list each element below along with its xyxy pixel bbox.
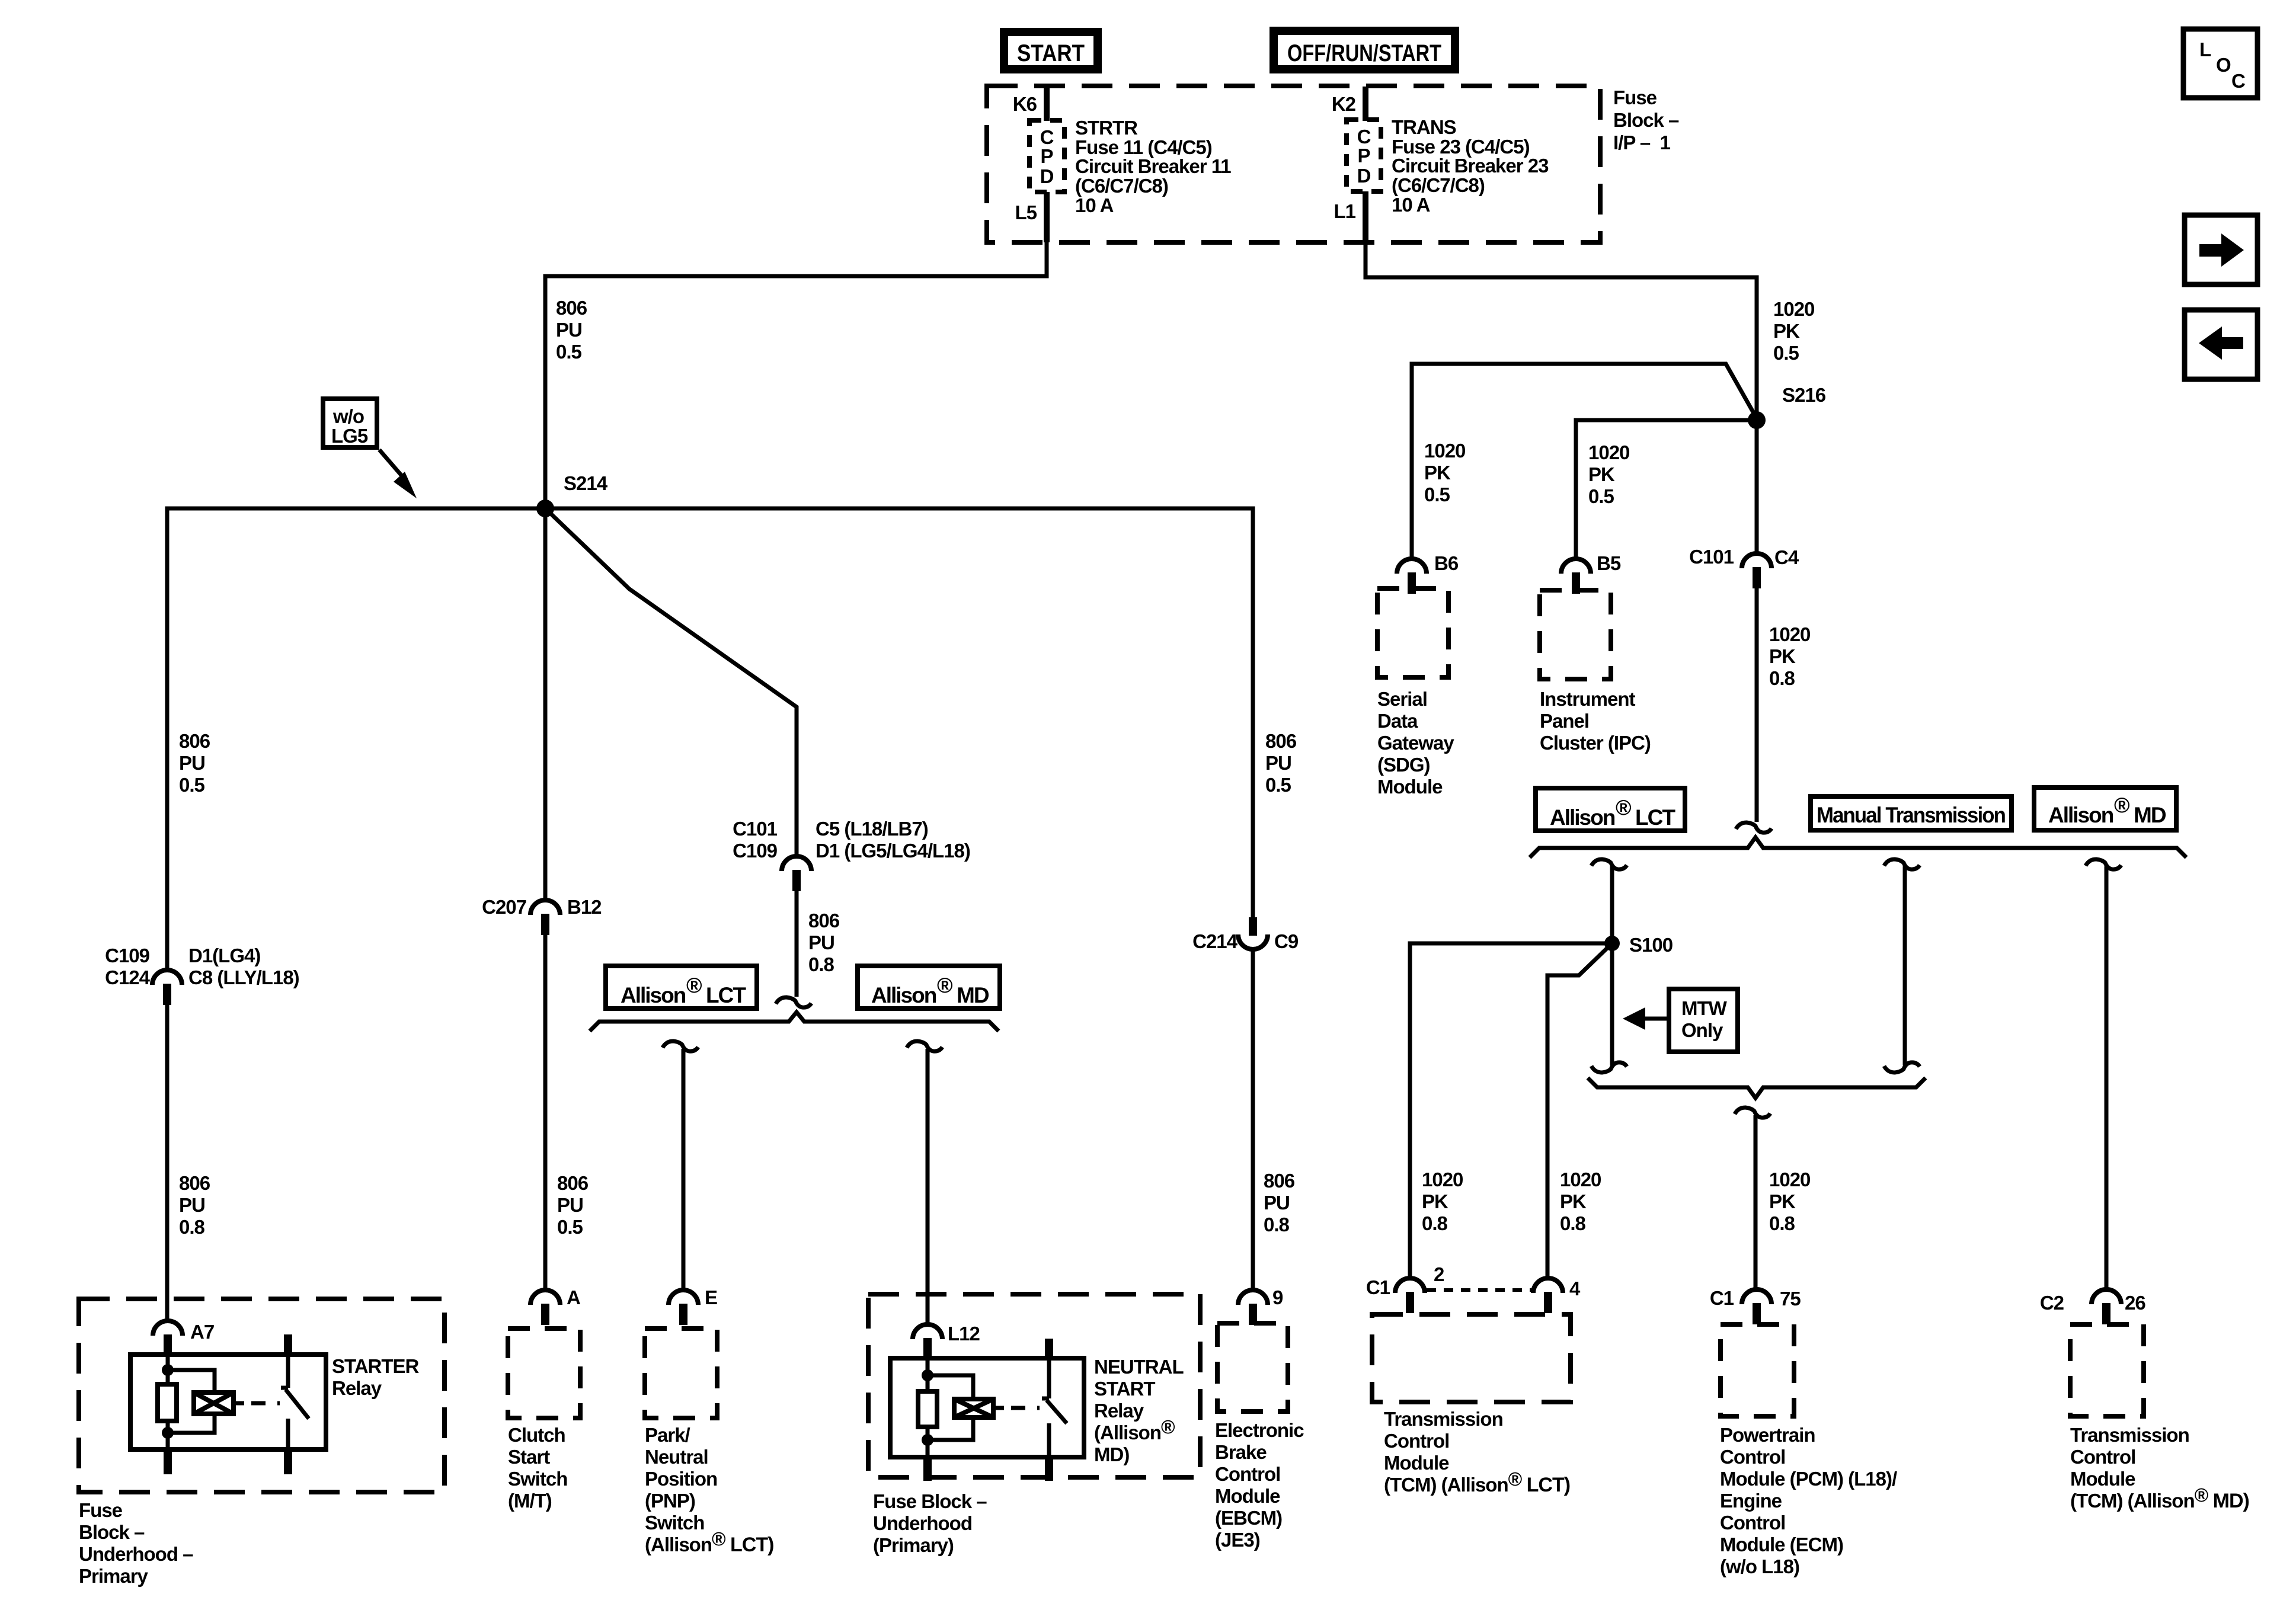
svg-text:L5: L5: [1015, 201, 1037, 223]
svg-text:0.8: 0.8: [1769, 667, 1795, 689]
svg-text:C: C: [2231, 70, 2245, 92]
svg-text:C109: C109: [105, 945, 150, 966]
label NEUTRAL START Relay: [1094, 1356, 1184, 1465]
pin L1: [1334, 191, 1368, 242]
label 1020 PK 0.8 (C4 column): [1769, 623, 1810, 689]
svg-text:K6: K6: [1013, 93, 1037, 115]
svg-text:Transmission: Transmission: [2070, 1424, 2189, 1446]
svg-text:806: 806: [1265, 730, 1297, 752]
svg-text:Allison: Allison: [1550, 805, 1615, 830]
box Allison LCT (left): [606, 966, 757, 1009]
connector B5: [1561, 552, 1621, 594]
wire S216 to B5: [1576, 420, 1757, 559]
svg-text:NEUTRAL: NEUTRAL: [1094, 1356, 1184, 1378]
label 806 PU 0.5 (left column): [179, 730, 210, 796]
svg-text:®: ®: [1616, 795, 1632, 820]
brace under Allison LCT/MD (left): [590, 1012, 999, 1031]
svg-text:C101: C101: [733, 818, 778, 840]
wire to neutral start relay L12: [926, 1049, 930, 1326]
wire S214 diagonal branch: [545, 508, 797, 856]
label Fuse Block - Underhood - Primary: [79, 1499, 193, 1587]
label 806 PU 0.8 (EBCM column): [1264, 1170, 1295, 1235]
svg-text:STRTR: STRTR: [1075, 117, 1138, 139]
svg-text:Module: Module: [1377, 776, 1443, 798]
svg-text:B12: B12: [567, 896, 602, 918]
svg-text:K2: K2: [1332, 93, 1356, 115]
svg-text:Instrument: Instrument: [1540, 688, 1636, 710]
svg-text:26: 26: [2125, 1292, 2145, 1314]
svg-text:Module: Module: [1384, 1452, 1449, 1474]
svg-text:C1: C1: [1366, 1276, 1390, 1298]
label Powertrain Control Module (PCM)/ECM: [1720, 1424, 1897, 1577]
label Park/Neutral Position Switch: [645, 1424, 773, 1556]
svg-text:PU: PU: [556, 319, 582, 341]
svg-text:1020: 1020: [1588, 441, 1629, 463]
TCM Allison LCT dashed box: [1372, 1314, 1571, 1402]
svg-text:0.8: 0.8: [808, 953, 834, 975]
PNP switch dashed box: [645, 1329, 717, 1418]
svg-text:(w/o L18): (w/o L18): [1720, 1555, 1799, 1577]
arrow box left: [2185, 310, 2257, 379]
wire S214 down branch: [543, 508, 548, 901]
svg-text:C8 (LLY/L18): C8 (LLY/L18): [188, 966, 299, 988]
curl top of PNP wire: [663, 1041, 698, 1051]
fuse block underhood primary dashed box: [79, 1299, 445, 1492]
svg-text:MTW: MTW: [1681, 997, 1728, 1019]
svg-text:Cluster (IPC): Cluster (IPC): [1540, 732, 1651, 754]
svg-text:Transmission: Transmission: [1384, 1408, 1503, 1430]
busbar Allison MD down to TCM C2: [2086, 859, 2121, 1291]
svg-text:START: START: [1017, 40, 1085, 66]
label 1020 PK 0.8 (PCM column): [1769, 1169, 1810, 1234]
svg-text:Engine: Engine: [1720, 1490, 1782, 1512]
svg-text:Control: Control: [1384, 1430, 1449, 1452]
wire to PCM C1 pin 75: [1754, 1115, 1758, 1291]
svg-text:Electronic: Electronic: [1215, 1419, 1304, 1441]
connector C1 pin 75 (PCM): [1710, 1287, 1801, 1324]
svg-text:C124: C124: [105, 966, 151, 988]
svg-text:Brake: Brake: [1215, 1441, 1267, 1463]
neutral start relay: [890, 1339, 1084, 1481]
busbar Allison LCT with curls: [1591, 859, 1627, 1073]
svg-text:Serial: Serial: [1377, 688, 1427, 710]
connector C109/C124 pin D1/C8: [105, 945, 299, 1005]
wire S214 left branch: [167, 508, 545, 971]
svg-text:C9: C9: [1274, 930, 1299, 952]
svg-text:w/o: w/o: [332, 405, 364, 427]
wire S214 right branch: [545, 508, 1253, 918]
connector C2 pin 26 (TCM MD): [2040, 1289, 2146, 1324]
curl top of L12 wire: [907, 1041, 942, 1051]
switch position label START: [1004, 32, 1098, 69]
svg-text:(EBCM): (EBCM): [1215, 1507, 1282, 1529]
label Transmission Control Module (TCM) (Allison MD): [2070, 1424, 2249, 1512]
busbar Manual Transmission with curls: [1884, 859, 1920, 1073]
svg-text:10 A: 10 A: [1075, 194, 1114, 216]
connector C101 pin C4: [1689, 546, 1799, 588]
splice S214: [536, 472, 608, 517]
connector L12: [913, 1323, 980, 1359]
svg-text:S214: S214: [564, 472, 608, 494]
svg-text:I/P – 1: I/P – 1: [1613, 132, 1671, 153]
svg-text:Position: Position: [645, 1468, 717, 1490]
svg-text:75: 75: [1780, 1288, 1801, 1310]
svg-text:2: 2: [1434, 1263, 1444, 1285]
svg-text:O: O: [2216, 54, 2231, 76]
switch position label OFF/RUN/START: [1274, 31, 1455, 69]
svg-text:P: P: [1357, 145, 1370, 167]
svg-text:B5: B5: [1597, 552, 1621, 574]
svg-text:Allison: Allison: [2048, 803, 2113, 827]
wire C4 down to brace: [1755, 585, 1759, 822]
svg-text:TRANS: TRANS: [1392, 116, 1456, 138]
CPD symbol (STRTR fuse): [1029, 120, 1064, 192]
fuse block I/P dashed outline: [987, 86, 1600, 242]
brace merging LCT/MT options: [1588, 1078, 1926, 1098]
box Allison MD (left): [858, 966, 1000, 1009]
svg-text:D1 (LG5/LG4/L18): D1 (LG5/LG4/L18): [816, 840, 970, 862]
connector pin 4 (TCM LCT): [1533, 1278, 1581, 1313]
CPD symbol (TRANS fuse): [1347, 120, 1381, 191]
svg-text:A7: A7: [190, 1321, 214, 1343]
label Electronic Brake Control Module: [1215, 1419, 1304, 1551]
svg-text:Allison: Allison: [621, 983, 686, 1007]
svg-text:B6: B6: [1434, 552, 1459, 574]
wire C9 to EBCM pin 9: [1251, 949, 1255, 1291]
svg-text:Module: Module: [2070, 1468, 2135, 1490]
svg-text:®: ®: [937, 973, 953, 997]
starter relay: [130, 1334, 326, 1474]
SDG module dashed box: [1377, 588, 1448, 677]
svg-text:Circuit Breaker 11: Circuit Breaker 11: [1075, 155, 1231, 177]
connector A7: [153, 1321, 214, 1356]
svg-text:Switch: Switch: [508, 1468, 567, 1490]
svg-text:C5 (L18/LB7): C5 (L18/LB7): [816, 818, 928, 840]
svg-text:MD): MD): [1094, 1443, 1129, 1465]
svg-text:0.5: 0.5: [1265, 774, 1291, 796]
label 806 PU 0.5 (top): [556, 297, 587, 363]
pin K2: [1332, 87, 1368, 121]
svg-text:A: A: [567, 1286, 580, 1308]
label 806 PU 0.8 (left column): [179, 1172, 210, 1238]
connector 9 (EBCM): [1238, 1286, 1283, 1325]
svg-text:1020: 1020: [1560, 1169, 1601, 1190]
arrow box right: [2185, 215, 2257, 284]
svg-text:PU: PU: [808, 932, 834, 953]
svg-text:Control: Control: [1720, 1512, 1785, 1534]
svg-text:MD: MD: [957, 983, 989, 1007]
svg-text:START: START: [1094, 1378, 1155, 1400]
connector C1 pin 2 (TCM LCT): [1366, 1263, 1444, 1313]
svg-text:Park/: Park/: [645, 1424, 690, 1446]
svg-text:PU: PU: [1264, 1192, 1290, 1214]
svg-text:9: 9: [1272, 1286, 1283, 1308]
svg-text:PK: PK: [1422, 1190, 1448, 1212]
svg-text:1020: 1020: [1773, 298, 1814, 320]
svg-text:Module (ECM): Module (ECM): [1720, 1534, 1843, 1555]
svg-text:0.8: 0.8: [1422, 1212, 1448, 1234]
svg-text:Primary: Primary: [79, 1565, 149, 1587]
svg-text:C1: C1: [1710, 1287, 1734, 1309]
svg-text:L12: L12: [948, 1323, 980, 1345]
svg-text:(C6/C7/C8): (C6/C7/C8): [1392, 174, 1485, 196]
svg-text:PK: PK: [1588, 463, 1615, 485]
svg-text:0.8: 0.8: [179, 1216, 205, 1238]
svg-text:E: E: [705, 1286, 717, 1308]
clutch start switch dashed box: [508, 1329, 580, 1418]
svg-text:PU: PU: [179, 752, 205, 774]
svg-text:806: 806: [1264, 1170, 1295, 1192]
svg-text:Data: Data: [1377, 710, 1418, 732]
label Transmission Control Module (TCM) (Allison LCT): [1384, 1408, 1570, 1496]
wire L5 to S214: [545, 240, 1047, 504]
connector B6: [1397, 552, 1459, 594]
curl below merge brace: [1735, 1108, 1770, 1118]
svg-text:Switch: Switch: [645, 1512, 704, 1534]
svg-text:Circuit Breaker 23: Circuit Breaker 23: [1392, 155, 1549, 177]
wire to PNP switch E: [682, 1049, 686, 1291]
svg-text:Module: Module: [1215, 1485, 1280, 1507]
svg-text:C109: C109: [733, 840, 778, 862]
label 1020 PK 0.8 (pin4 column): [1560, 1169, 1601, 1234]
svg-text:Allison: Allison: [871, 983, 936, 1007]
svg-text:0.5: 0.5: [1424, 484, 1450, 505]
label Clutch Start Switch (M/T): [508, 1424, 567, 1512]
svg-text:PU: PU: [1265, 752, 1291, 774]
box Allison LCT (right): [1536, 788, 1685, 831]
svg-text:LCT: LCT: [1635, 805, 1675, 830]
box Allison MD (right): [2034, 788, 2176, 830]
svg-text:D1(LG4): D1(LG4): [188, 945, 260, 966]
svg-text:1020: 1020: [1424, 440, 1465, 462]
svg-text:PK: PK: [1769, 1190, 1796, 1212]
svg-text:806: 806: [179, 1172, 210, 1194]
label Serial Data Gateway (SDG) Module: [1377, 688, 1454, 798]
label 1020 PK 0.8 (pin2 column): [1422, 1169, 1463, 1234]
svg-text:(M/T): (M/T): [508, 1490, 552, 1512]
svg-text:(C6/C7/C8): (C6/C7/C8): [1075, 175, 1168, 197]
svg-text:Gateway: Gateway: [1377, 732, 1454, 754]
connector C214 pin C9: [1192, 917, 1299, 952]
svg-text:1020: 1020: [1422, 1169, 1463, 1190]
svg-text:L: L: [2199, 39, 2211, 60]
svg-text:Relay: Relay: [332, 1377, 382, 1399]
svg-text:1020: 1020: [1769, 623, 1810, 645]
svg-text:Clutch: Clutch: [508, 1424, 565, 1446]
svg-text:STARTER: STARTER: [332, 1355, 420, 1377]
wire B12 to clutch switch A: [543, 933, 548, 1291]
label 1020 PK 0.5 (right of wire): [1773, 298, 1814, 364]
svg-text:Control: Control: [1720, 1446, 1785, 1468]
svg-text:PK: PK: [1560, 1190, 1587, 1212]
svg-text:MD: MD: [2134, 803, 2166, 827]
svg-text:Control: Control: [1215, 1463, 1280, 1485]
svg-text:0.5: 0.5: [556, 341, 582, 363]
connector A (clutch start switch): [530, 1286, 580, 1325]
svg-text:LG5: LG5: [331, 425, 368, 447]
svg-text:(Primary): (Primary): [873, 1534, 954, 1556]
svg-text:806: 806: [557, 1172, 589, 1194]
svg-text:Fuse: Fuse: [1613, 87, 1657, 108]
svg-text:0.8: 0.8: [1264, 1214, 1290, 1235]
svg-text:0.5: 0.5: [1773, 342, 1799, 364]
dashed connector line C1: [1427, 1288, 1531, 1292]
svg-text:Underhood: Underhood: [873, 1512, 972, 1534]
svg-text:0.8: 0.8: [1769, 1212, 1795, 1234]
svg-text:Neutral: Neutral: [645, 1446, 708, 1468]
svg-text:Fuse: Fuse: [79, 1499, 123, 1521]
svg-text:Manual Transmission: Manual Transmission: [1817, 803, 2005, 827]
svg-text:D: D: [1357, 165, 1371, 187]
label Fuse Block - Underhood (Primary): [873, 1490, 987, 1556]
svg-text:PU: PU: [179, 1194, 205, 1216]
svg-text:(JE3): (JE3): [1215, 1529, 1260, 1551]
svg-text:Fuse Block –: Fuse Block –: [873, 1490, 987, 1512]
svg-text:PK: PK: [1773, 320, 1800, 342]
fuse block underhood primary #2 dashed box: [868, 1294, 1200, 1477]
svg-text:OFF/RUN/START: OFF/RUN/START: [1287, 40, 1441, 66]
box MTW Only with arrow: [1623, 989, 1738, 1052]
wire end curl above brace: [776, 997, 811, 1007]
svg-text:PK: PK: [1769, 645, 1796, 667]
svg-text:806: 806: [808, 910, 840, 932]
svg-text:806: 806: [556, 297, 587, 319]
label Fuse Block - I/P - 1: [1613, 87, 1679, 153]
svg-text:Control: Control: [2070, 1446, 2135, 1468]
box Manual Transmission: [1811, 796, 2012, 830]
EBCM dashed box: [1217, 1323, 1288, 1411]
svg-text:Relay: Relay: [1094, 1400, 1144, 1422]
svg-text:D: D: [1040, 165, 1054, 187]
svg-text:Panel: Panel: [1540, 710, 1589, 732]
svg-text:Underhood –: Underhood –: [79, 1543, 193, 1565]
svg-text:P: P: [1040, 145, 1053, 167]
label STRTR Fuse 11: [1075, 117, 1231, 216]
label 1020 PK 0.5 (B6 column): [1424, 440, 1465, 505]
svg-text:0.5: 0.5: [1588, 485, 1614, 507]
svg-text:LCT: LCT: [706, 983, 746, 1007]
svg-text:S100: S100: [1629, 934, 1673, 956]
svg-text:(PNP): (PNP): [645, 1490, 695, 1512]
wire L1 to S216: [1366, 240, 1757, 416]
svg-text:®: ®: [2114, 793, 2130, 817]
splice S216: [1748, 384, 1826, 429]
svg-text:PK: PK: [1424, 462, 1451, 484]
splice S100: [1604, 934, 1673, 956]
label 806 PU 0.5 (right of S214): [1265, 730, 1297, 796]
wire D1 down to brace: [795, 888, 799, 997]
svg-text:10 A: 10 A: [1392, 194, 1430, 216]
wire S100 diagonal branch to TCM pin 4: [1547, 943, 1612, 1279]
svg-text:Block –: Block –: [1613, 109, 1679, 131]
svg-text:S216: S216: [1782, 384, 1826, 406]
svg-text:Start: Start: [508, 1446, 550, 1468]
connector C101/C109 pin C5/D1: [733, 818, 970, 891]
label 806 PU 0.5 (clutch column): [557, 1172, 589, 1238]
IPC dashed box: [1540, 590, 1611, 679]
svg-text:Module (PCM) (L18)/: Module (PCM) (L18)/: [1720, 1468, 1897, 1490]
svg-text:806: 806: [179, 730, 210, 752]
svg-text:0.5: 0.5: [179, 774, 205, 796]
svg-text:®: ®: [686, 973, 702, 997]
label 1020 PK 0.5 (B5 column): [1588, 441, 1629, 507]
pin K6: [1013, 87, 1050, 121]
brace under transmission boxes: [1530, 837, 2186, 857]
wire to starter relay A7: [165, 1003, 170, 1322]
wire S216 down: [1755, 420, 1759, 553]
label 806 PU 0.8 (middle): [808, 910, 840, 975]
svg-text:Powertrain: Powertrain: [1720, 1424, 1815, 1446]
wire S216 to B6: [1412, 364, 1757, 559]
svg-text:0.5: 0.5: [557, 1216, 583, 1238]
LOC reference box: [2183, 29, 2257, 98]
pin L5: [1015, 192, 1050, 242]
svg-text:C207: C207: [482, 896, 526, 918]
PCM dashed box: [1721, 1324, 1794, 1416]
wire S100 left branch to TCM pin 2: [1410, 943, 1612, 1279]
svg-text:C4: C4: [1774, 546, 1799, 568]
label Instrument Panel Cluster (IPC): [1540, 688, 1651, 754]
svg-text:C101: C101: [1689, 546, 1734, 568]
svg-text:PU: PU: [557, 1194, 583, 1216]
connector C207 pin B12: [482, 896, 602, 935]
svg-text:Only: Only: [1681, 1019, 1723, 1041]
svg-text:Block –: Block –: [79, 1521, 145, 1543]
svg-text:(SDG): (SDG): [1377, 754, 1430, 776]
svg-text:C2: C2: [2040, 1292, 2064, 1314]
svg-text:L1: L1: [1334, 200, 1355, 222]
svg-text:4: 4: [1569, 1278, 1581, 1299]
svg-text:1020: 1020: [1769, 1169, 1810, 1190]
box w/o LG5 with arrow: [323, 399, 417, 498]
connector E (PNP switch): [669, 1286, 717, 1325]
label STARTER Relay: [332, 1355, 420, 1399]
svg-text:0.8: 0.8: [1560, 1212, 1586, 1234]
TCM Allison MD dashed box: [2070, 1324, 2144, 1416]
wire end curl above transmission brace: [1736, 822, 1771, 833]
label TRANS Fuse 23: [1392, 116, 1549, 216]
svg-text:C214: C214: [1192, 930, 1238, 952]
